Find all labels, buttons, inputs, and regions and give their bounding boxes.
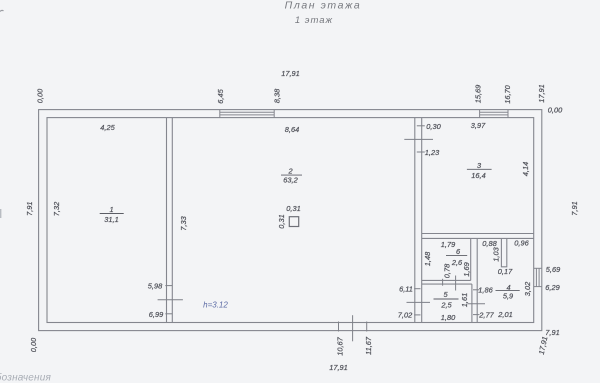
svg-text:7,33: 7,33 — [179, 215, 188, 230]
scan artifact left edge — [0, 209, 2, 218]
svg-text:17,91: 17,91 — [537, 84, 546, 103]
door D5 ticks rooms5-4 — [467, 290, 485, 315]
svg-text:1,80: 1,80 — [441, 313, 456, 322]
wall room4 left edge — [476, 238, 478, 322]
svg-text:2,5: 2,5 — [440, 301, 452, 310]
svg-text:0,31: 0,31 — [277, 214, 286, 228]
wall room6 right edge — [470, 238, 472, 280]
svg-text:0,30: 0,30 — [426, 122, 441, 131]
svg-text:1,69: 1,69 — [462, 262, 471, 276]
svg-text:2,77: 2,77 — [478, 311, 494, 320]
svg-text:6,45: 6,45 — [216, 88, 225, 103]
svg-text:h=3.12: h=3.12 — [203, 301, 228, 310]
svg-text:5,9: 5,9 — [503, 291, 513, 300]
room2 number and area — [281, 167, 302, 185]
svg-text:11,67: 11,67 — [364, 336, 373, 355]
svg-text:17,91: 17,91 — [281, 69, 300, 78]
svg-text:1,03: 1,03 — [491, 246, 500, 261]
wall room1 right edge — [166, 118, 168, 323]
wall room3 and rooms 5-6 left edge — [421, 118, 423, 323]
svg-text:0,31: 0,31 — [286, 204, 300, 213]
window W1 top wall — [220, 110, 274, 118]
door D3 ticks rooms2-5 — [407, 289, 431, 315]
window W2 top wall — [480, 110, 508, 118]
building outer wall — [39, 110, 542, 331]
svg-text:7,32: 7,32 — [52, 202, 61, 216]
wall rooms 6 and 4 top edge — [422, 237, 534, 239]
window W3 right wall — [534, 268, 542, 286]
svg-text:2: 2 — [287, 167, 292, 176]
wall room2 left edge — [171, 118, 173, 323]
svg-text:7,91: 7,91 — [25, 202, 34, 216]
room1 number and area — [100, 205, 124, 224]
svg-text:16,4: 16,4 — [471, 171, 485, 180]
column 0.31x0.31 in room2 — [289, 217, 298, 227]
svg-text:0,00: 0,00 — [29, 337, 38, 352]
wall room2 right edge — [414, 118, 416, 323]
room3 number and area — [467, 161, 492, 180]
svg-text:16,70: 16,70 — [503, 84, 512, 103]
svg-text:6,29: 6,29 — [545, 283, 559, 292]
room4 number and area — [496, 283, 520, 300]
svg-text:8,38: 8,38 — [273, 88, 282, 103]
svg-text:5,98: 5,98 — [148, 282, 163, 291]
svg-text:4,25: 4,25 — [100, 123, 115, 132]
svg-text:обозначения: обозначения — [0, 372, 51, 383]
svg-text:7,91: 7,91 — [545, 328, 559, 337]
svg-text:10,67: 10,67 — [336, 336, 345, 355]
door D1 ticks rooms1-2 — [158, 286, 183, 314]
svg-text:3,02: 3,02 — [523, 282, 532, 296]
svg-text:2,01: 2,01 — [497, 310, 512, 319]
svg-text:31,1: 31,1 — [104, 215, 118, 224]
svg-text:3,97: 3,97 — [471, 121, 486, 130]
room6 number and area — [446, 247, 467, 267]
door ticks bottom wall — [339, 315, 367, 341]
duct partition in room4 — [501, 238, 506, 266]
svg-text:63,2: 63,2 — [283, 176, 297, 185]
svg-text:5,69: 5,69 — [546, 265, 560, 274]
building inner wall — [47, 118, 534, 323]
svg-text:1 этаж: 1 этаж — [295, 15, 333, 26]
door D2 ticks rooms2-3 — [404, 126, 433, 152]
svg-text:1,23: 1,23 — [425, 148, 440, 157]
wall room6 bottom edge — [422, 279, 471, 281]
svg-text:0,78: 0,78 — [443, 263, 452, 278]
svg-text:1,79: 1,79 — [441, 240, 455, 249]
svg-text:0,00: 0,00 — [36, 88, 45, 103]
svg-text:17,91: 17,91 — [329, 363, 348, 372]
wall room5 right edge — [471, 284, 473, 322]
svg-text:1,48: 1,48 — [423, 251, 432, 266]
svg-text:7,02: 7,02 — [398, 311, 412, 320]
svg-text:6,11: 6,11 — [399, 285, 413, 294]
svg-text:4,14: 4,14 — [521, 162, 530, 176]
svg-text:8,64: 8,64 — [285, 125, 299, 134]
svg-text:6,99: 6,99 — [149, 310, 163, 319]
svg-text:0,00: 0,00 — [548, 106, 563, 115]
svg-text:План этажа: План этажа — [285, 0, 362, 12]
svg-text:0,88: 0,88 — [482, 239, 497, 248]
room5 number and area — [434, 290, 459, 309]
door D4 ticks rooms6-5 — [443, 276, 456, 291]
svg-text:1,61: 1,61 — [460, 293, 469, 307]
svg-text:1,86: 1,86 — [478, 286, 493, 295]
scan artifact top-left — [0, 10, 4, 11]
wall room3 bottom edge — [422, 233, 534, 235]
svg-text:0,96: 0,96 — [514, 239, 529, 248]
svg-text:1: 1 — [109, 205, 113, 214]
svg-text:15,69: 15,69 — [474, 85, 483, 104]
svg-text:0,17: 0,17 — [498, 267, 513, 276]
svg-text:7,91: 7,91 — [570, 201, 579, 215]
wall room5 top edge — [422, 283, 472, 285]
